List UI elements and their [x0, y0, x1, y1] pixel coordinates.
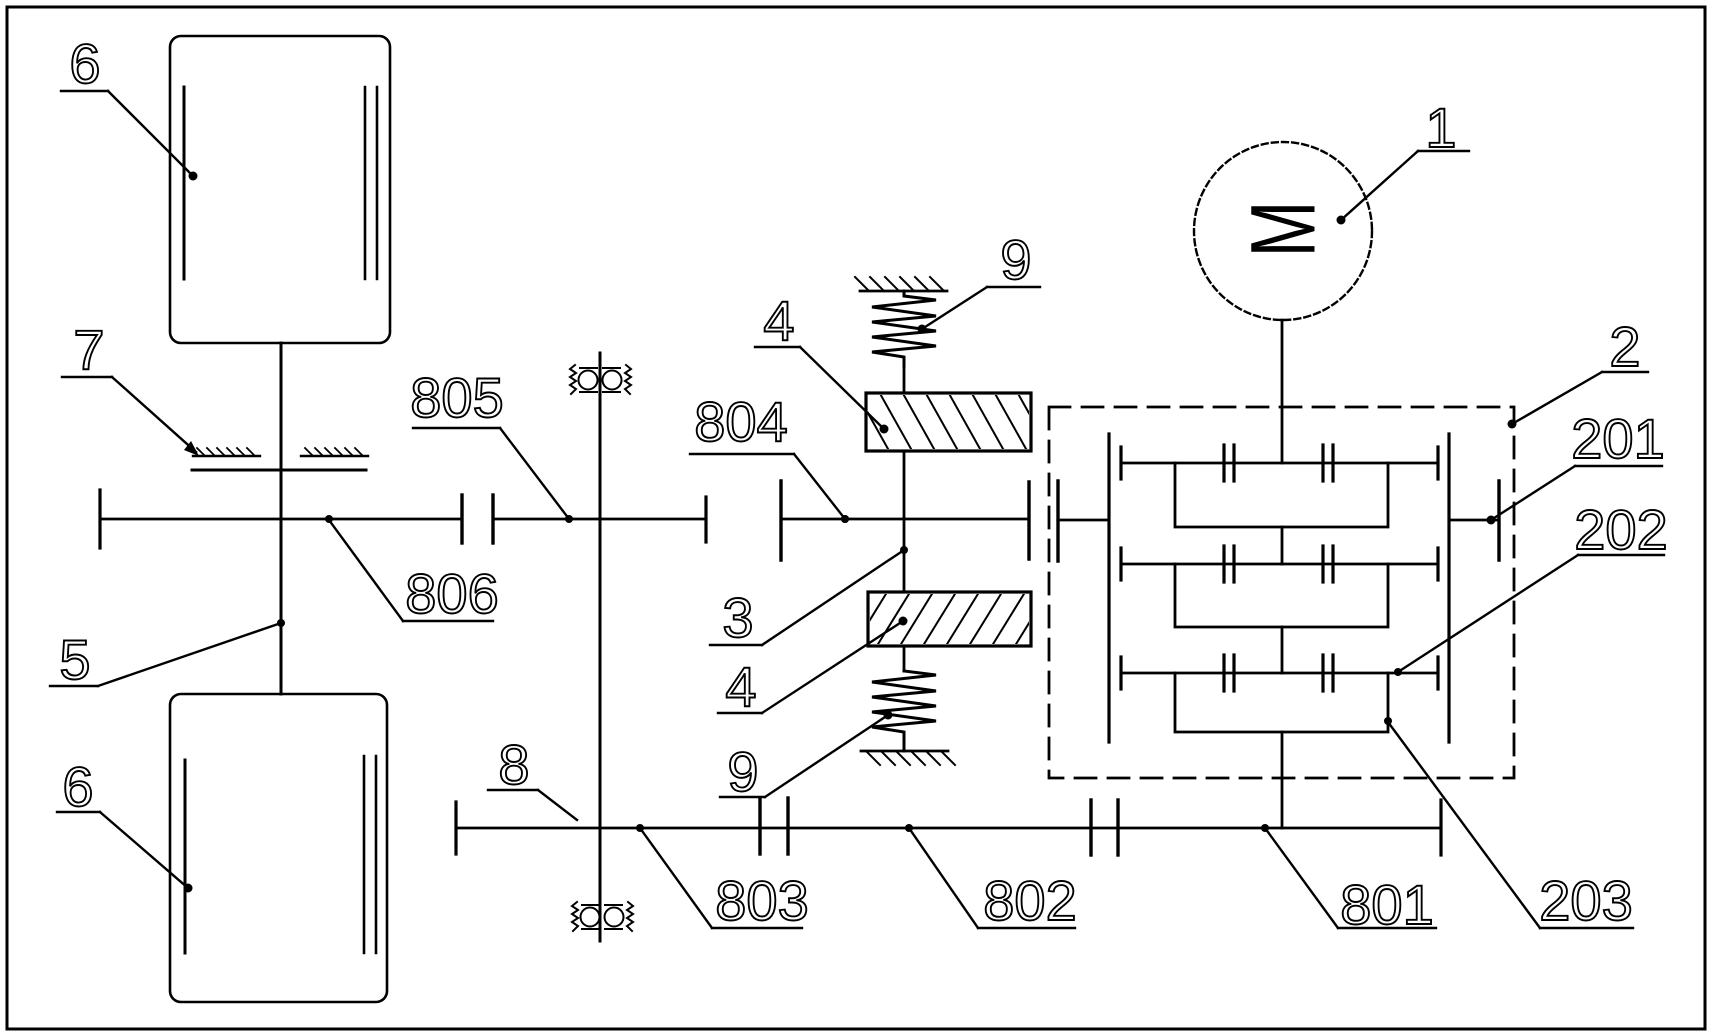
- motor 1 circle: [1194, 142, 1372, 320]
- label 4 upper leader: [755, 346, 800, 348]
- svg-text:805: 805: [410, 366, 503, 429]
- label 806 leader: [403, 620, 493, 622]
- gear row 2 end caps: [1119, 548, 1122, 580]
- support bearing 7 right strip: [301, 455, 368, 457]
- label 804 leader: [690, 453, 794, 455]
- coupling 801 bars: [1089, 800, 1092, 855]
- svg-text:M: M: [1233, 201, 1335, 258]
- gearbox output stub: [1281, 732, 1284, 828]
- shaft 3 (vertical through blocks): [903, 451, 906, 592]
- label 203 leader: [1540, 927, 1633, 929]
- gear row 1 mesh bars: [1222, 445, 1225, 481]
- svg-text:9: 9: [1000, 228, 1031, 291]
- upper ground (wall) for spring 9: [860, 290, 947, 293]
- svg-text:804: 804: [694, 390, 787, 453]
- wheel 6 top inner right lines: [364, 87, 367, 279]
- svg-text:4: 4: [763, 289, 794, 352]
- mid shaft second segment: [781, 518, 1029, 521]
- svg-text:6: 6: [69, 32, 100, 95]
- gearbox right ring vertical: [1447, 434, 1450, 742]
- bottom shaft left cap: [454, 802, 457, 854]
- label 3 leader: [710, 644, 762, 646]
- label 1 leader: [1418, 150, 1469, 152]
- label 6 bottom leader: [57, 811, 100, 813]
- stub to lower spring: [903, 646, 906, 671]
- node 803: [636, 824, 644, 832]
- mid shaft segment to cap: [493, 518, 706, 521]
- friction block 4 (lower, hatched): [868, 592, 1031, 646]
- countershaft 8 (vertical): [599, 353, 602, 941]
- wheel 6 (top): [170, 36, 390, 343]
- node 804 on mid shaft: [841, 515, 849, 523]
- gearbox left ring vertical: [1107, 434, 1110, 742]
- lower ground (wall): [861, 750, 948, 753]
- wheel 6 bottom inner left line: [184, 760, 187, 953]
- gear row 1 end caps: [1119, 447, 1122, 479]
- node 202: [1394, 668, 1402, 676]
- gear row 2 line: [1121, 563, 1438, 566]
- lower spring 9: [872, 671, 936, 751]
- upper spring 9: [872, 291, 936, 366]
- svg-text:201: 201: [1571, 407, 1664, 470]
- support bearing 7 left strip: [193, 455, 260, 457]
- gearbox right cap 201: [1497, 481, 1500, 560]
- mid shaft right cap of first segment: [704, 497, 707, 542]
- svg-text:802: 802: [983, 869, 1076, 932]
- svg-text:806: 806: [405, 562, 498, 625]
- friction block 4 (upper, hatched): [866, 393, 1031, 451]
- bottom shaft: [456, 827, 1441, 830]
- node 203: [1384, 717, 1392, 725]
- gear row 3 end caps: [1119, 657, 1122, 689]
- leader end dots: [184, 172, 1346, 893]
- gearbox input cap inside box: [1056, 481, 1059, 561]
- coupling bar before gearbox: [1027, 482, 1030, 559]
- svg-text:6: 6: [62, 755, 93, 818]
- label 5 leader: [50, 685, 98, 687]
- svg-text:2: 2: [1609, 315, 1640, 378]
- mid shaft left end cap: [98, 490, 101, 548]
- label 802 leader: [978, 927, 1075, 929]
- label 201 leader: [1575, 465, 1662, 467]
- label 9 lower leader: [720, 796, 765, 798]
- axle shaft 5 (vertical): [280, 343, 283, 694]
- gear row 3 mesh bars: [1222, 655, 1225, 691]
- svg-text:803: 803: [715, 869, 808, 932]
- node on axle for label 5: [277, 619, 285, 627]
- carrier 1: [1175, 463, 1388, 527]
- label 202 leader: [1578, 554, 1664, 556]
- svg-text:8: 8: [498, 733, 529, 796]
- carrier 2: [1175, 564, 1388, 627]
- label 6 top leader: [61, 90, 108, 92]
- support bearing 7 base line: [192, 469, 366, 472]
- bearing on countershaft bottom: [572, 902, 633, 931]
- coupling 805 bars: [460, 495, 463, 543]
- svg-text:203: 203: [1539, 869, 1632, 932]
- gear row 1 line: [1121, 462, 1438, 465]
- bearing on countershaft top: [570, 365, 631, 394]
- gearbox right link line: [1449, 519, 1499, 522]
- node 201: [1487, 516, 1496, 525]
- bottom shaft right cap: [1439, 800, 1442, 855]
- node 801: [1261, 824, 1269, 832]
- node 2 at box corner: [1508, 420, 1517, 429]
- wheel 6 (bottom): [170, 694, 387, 1002]
- gear row 2 mesh bars: [1222, 546, 1225, 582]
- node 802: [905, 824, 913, 832]
- mid shaft left segment: [100, 518, 462, 521]
- coupling half bar at 781: [779, 481, 782, 560]
- svg-text:1: 1: [1425, 96, 1456, 159]
- svg-text:7: 7: [73, 318, 104, 381]
- node 806 on mid shaft: [325, 515, 333, 523]
- gearbox input link line: [1058, 519, 1109, 522]
- label 805 leader: [413, 427, 500, 429]
- coupling 803/802 bars: [758, 798, 761, 854]
- svg-text:202: 202: [1574, 498, 1667, 561]
- gear row 3 line: [1121, 672, 1438, 675]
- label 801 leader: [1338, 927, 1436, 929]
- carrier 3: [1175, 673, 1388, 732]
- svg-text:5: 5: [59, 628, 90, 691]
- svg-text:9: 9: [727, 740, 758, 803]
- stub to upper friction block: [903, 366, 906, 393]
- label 7 leader: [62, 376, 112, 378]
- label 8 leader: [488, 789, 538, 791]
- node on shaft 3: [900, 546, 908, 554]
- motor output stub to gearbox: [1281, 320, 1284, 463]
- motor letter M: [1233, 201, 1335, 258]
- svg-text:801: 801: [1340, 873, 1433, 936]
- label 803 leader: [712, 927, 802, 929]
- label 2 leader: [1602, 371, 1648, 373]
- label 9 upper leader: [987, 286, 1040, 288]
- svg-text:4: 4: [725, 655, 756, 718]
- label 4 lower leader: [718, 712, 762, 714]
- gearbox 2 dashed box: [1049, 407, 1514, 778]
- wheel 6 bottom inner right lines: [363, 756, 366, 953]
- svg-text:3: 3: [722, 586, 753, 649]
- wheel 6 top inner left line: [183, 87, 186, 279]
